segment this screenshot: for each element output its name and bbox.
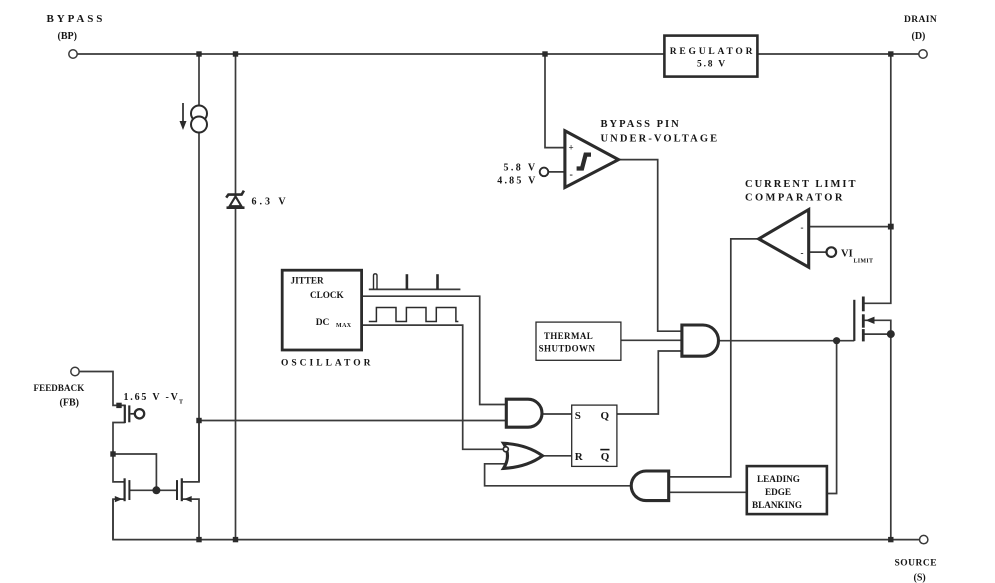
node FB drain [116, 403, 121, 408]
node current limit reference input [827, 247, 837, 257]
wire MOSFET body to source [863, 320, 891, 334]
node top rail zener branch [233, 51, 238, 56]
wire oscillator DCMAX output to OR gate top input [362, 325, 503, 449]
wire right mirror FET source to bottom rail [182, 499, 199, 539]
svg-text:JITTER: JITTER [291, 276, 325, 286]
wire feedback terminal into FB transistor drain [79, 372, 125, 406]
terminal SOURCE (S) [920, 535, 928, 543]
svg-text:6.3 V: 6.3 V [252, 196, 289, 207]
zener diode 6.3 V [226, 191, 244, 198]
wire left mirror FET gate to node [129, 489, 177, 491]
svg-text:LIMIT: LIMIT [854, 259, 874, 265]
svg-text:1.65 V -V: 1.65 V -V [124, 392, 180, 403]
svg-text:EDGE: EDGE [765, 487, 791, 497]
node bottom rail left bus [196, 537, 201, 542]
or-gate U3 reset [504, 443, 543, 468]
wire S-AND output to latch S [542, 413, 572, 415]
svg-text:Q: Q [601, 451, 610, 463]
svg-text:FEEDBACK: FEEDBACK [34, 383, 85, 393]
wire right mirror FET drain up to bias node [182, 421, 199, 482]
node FB source branch [110, 451, 115, 456]
node inverting bubble on OR input [503, 447, 508, 452]
svg-text:(D): (D) [912, 31, 926, 42]
transistor Q1 output MOSFET [853, 300, 855, 341]
oscillator box [282, 270, 361, 350]
node top rail drain bus [888, 51, 893, 56]
svg-text:T: T [179, 399, 183, 405]
wire current limit comparator plus input to drain bus [809, 226, 891, 228]
svg-text:DRAIN: DRAIN [904, 15, 937, 25]
svg-text:4.85 V: 4.85 V [497, 176, 537, 187]
node current limit input on drain bus [888, 224, 894, 230]
svg-text:BYPASS: BYPASS [47, 13, 106, 25]
wire oscillator CLOCK output to S-AND top input [362, 296, 507, 404]
node mirror gates [152, 486, 160, 494]
svg-text:-: - [801, 248, 804, 258]
svg-text:BYPASS PIN: BYPASS PIN [601, 119, 681, 130]
svg-text:S: S [575, 410, 581, 422]
wire bottom source rail [113, 499, 920, 539]
svg-text:BLANKING: BLANKING [752, 500, 802, 510]
node MOSFET source junction [887, 330, 895, 338]
svg-text:DC: DC [316, 318, 330, 328]
wire AND output to MOSFET gate [719, 340, 855, 342]
svg-text:CURRENT LIMIT: CURRENT LIMIT [745, 179, 857, 190]
wire thermal shutdown output to AND middle input [621, 339, 682, 341]
wire UV comparator output to AND gate top input [619, 160, 682, 332]
svg-text:REGULATOR: REGULATOR [670, 47, 756, 57]
wire blanking AND output to OR gate lower input [485, 464, 633, 486]
and-gate U2 set (clock + feedback) [506, 399, 542, 427]
wire left mirror FET source to bottom rail [113, 499, 125, 539]
current source I(BP) [191, 106, 207, 122]
terminal BYPASS (BP) [69, 50, 77, 58]
wire MOSFET source down to bottom rail [863, 334, 891, 539]
terminal DRAIN (D) [919, 50, 927, 58]
svg-text:CLOCK: CLOCK [310, 290, 345, 300]
wire current limit reference circle stub [809, 251, 827, 253]
wire left bus from top rail down through current source to node at 420 [198, 54, 200, 482]
node top rail left bus [196, 51, 201, 56]
svg-text:-: - [801, 223, 804, 233]
and-gate U1 gate drive (3 input) [682, 325, 719, 356]
svg-text:SHUTDOWN: SHUTDOWN [539, 344, 596, 354]
svg-text:MAX: MAX [336, 323, 352, 329]
svg-text:COMPARATOR: COMPARATOR [745, 193, 845, 204]
wire top rail BP to DRAIN [77, 53, 919, 55]
svg-text:UNDER-VOLTAGE: UNDER-VOLTAGE [601, 133, 720, 144]
node MOSFET gate junction [833, 337, 840, 344]
wire right drain bus from top rail to MOSFET drain [863, 54, 891, 303]
svg-text:(S): (S) [914, 573, 926, 583]
thermal shutdown box [536, 322, 621, 360]
svg-text:(FB): (FB) [60, 398, 79, 409]
transistor Q2 feedback input FET [124, 405, 126, 424]
wire latch Q output up to AND bottom input [617, 351, 682, 414]
DC max waveform [369, 308, 459, 322]
wire mirror bias branch [113, 454, 156, 490]
node UV reference input [540, 168, 549, 177]
svg-text:Q: Q [601, 410, 610, 422]
wire zener branch vertical [235, 54, 237, 540]
node bottom rail zener [233, 537, 238, 542]
latch S R flip-flop [572, 405, 617, 466]
node bottom rail MOSFET source [888, 537, 893, 542]
svg-text:OSCILLATOR: OSCILLATOR [281, 359, 373, 369]
svg-text:LEADING: LEADING [757, 474, 800, 484]
svg-text:THERMAL: THERMAL [544, 331, 593, 341]
wire gate node down to leading edge blanking input [827, 341, 837, 494]
svg-text:(BP): (BP) [58, 31, 77, 42]
svg-text:+: + [569, 143, 574, 153]
node top rail UV drop [542, 51, 547, 56]
wire feedback bias line to S-AND bottom input [199, 420, 506, 422]
transistor Q4 mirror right [181, 478, 183, 501]
svg-text:VI: VI [841, 248, 853, 259]
node feedback bias takeoff [196, 418, 201, 423]
wire UV reference circle stub [548, 171, 565, 173]
svg-text:5.8 V: 5.8 V [697, 60, 727, 70]
transistor Q3 mirror left [123, 478, 125, 501]
wire OR gate output to latch R [543, 455, 572, 457]
wire UV comparator plus-input drop from top rail [545, 54, 565, 148]
svg-text:SOURCE: SOURCE [895, 559, 938, 569]
svg-text:-: - [570, 170, 573, 181]
leading edge blanking box [747, 466, 827, 514]
terminal FEEDBACK (FB) [71, 367, 79, 375]
wire FB transistor source down to mirror node [113, 423, 125, 482]
svg-text:R: R [575, 451, 584, 463]
wire current limit comparator output down to blanking AND top input [669, 239, 759, 477]
svg-text:5.8 V: 5.8 V [503, 162, 537, 173]
op-amp current limit comparator [759, 210, 809, 268]
jitter clock waveform [369, 288, 461, 290]
and-gate U4 blanking (left pointing) [631, 471, 668, 501]
wire LEB box output to blanking AND bottom input [669, 491, 747, 493]
regulator 5.8V box [664, 36, 757, 77]
op-amp bypass pin under-voltage comparator [565, 131, 619, 188]
